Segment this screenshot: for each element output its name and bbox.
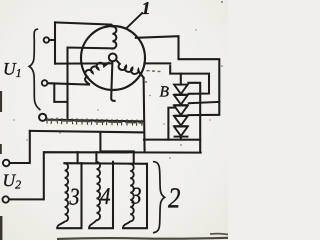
- terminal V1-c: [39, 114, 46, 121]
- terminal V2-b: [2, 196, 8, 202]
- wire coil bottom to left: [68, 48, 113, 120]
- scan noise speckles: [13, 1, 223, 159]
- lower-right rotor winding coil: [117, 61, 144, 78]
- wire rotor slip-ring down right: [144, 78, 145, 152]
- wire brush strip to rotor: [46, 120, 144, 122]
- wire V2-b to rail R3: [9, 152, 201, 199]
- scan artifact: bottom page edge: [57, 238, 228, 239]
- wire drop to choke 4: [95, 152, 97, 162]
- rotor center node circle: [109, 54, 117, 62]
- terminal V1-b: [42, 80, 48, 86]
- choke 3b left coil: [123, 164, 134, 228]
- choke 3 left coil: [57, 163, 68, 228]
- wire top box edge to coil top: [55, 22, 112, 26]
- svg-text:3: 3: [131, 184, 142, 210]
- wire rectifier chain top: [180, 74, 182, 85]
- wire rectifier output down: [188, 83, 200, 153]
- svg-text:3: 3: [69, 185, 80, 211]
- scan noise: dashed line right of machine: [147, 71, 161, 72]
- wire center tap stub down: [111, 61, 114, 101]
- brace V1: [29, 29, 40, 109]
- diode VD4: [174, 116, 188, 126]
- wire diode chain bottom stub: [180, 136, 182, 139]
- wire terminal V1-a to box: [49, 39, 55, 41]
- wire stator tap upper right: [136, 36, 220, 115]
- choke top rail: [64, 162, 147, 165]
- wire center tap horizontal: [55, 62, 112, 64]
- svg-text:1: 1: [142, 0, 151, 18]
- svg-text:2: 2: [168, 183, 181, 215]
- choke 4 body: [89, 162, 113, 228]
- choke 3b body: [123, 164, 147, 228]
- wire branch down from V1-b wire: [54, 84, 67, 102]
- wire rail R1: [30, 131, 144, 133]
- scan artifact: left page edge: [0, 91, 2, 240]
- scan noise: strip blobs: [47, 120, 144, 123]
- top stator winding coil: [112, 26, 116, 48]
- wire terminal V1-b to lower-left winding: [48, 83, 89, 84]
- wire drop to choke 3: [77, 152, 79, 163]
- terminal V1-a: [44, 37, 49, 42]
- wire rectifier tap from circle: [144, 63, 209, 93]
- diode VD3: [174, 106, 188, 116]
- choke 3 body: [57, 163, 81, 228]
- choke 4 left coil: [89, 162, 100, 228]
- wire rectifier left tap down: [168, 108, 175, 140]
- brace 2: [154, 162, 165, 233]
- wire R1 drop to choke rail: [100, 133, 133, 164]
- diode VD2: [174, 95, 188, 105]
- wire rail R2 rectifier bottom: [144, 139, 200, 141]
- label 1 pointer line: [126, 13, 142, 29]
- scan noise: brush strip hatching: [47, 118, 142, 126]
- terminal V2-a: [3, 160, 10, 167]
- wire rectifier right mid tap: [189, 102, 220, 103]
- lower-left rotor winding coil: [85, 63, 109, 84]
- diode VD1: [174, 85, 188, 95]
- svg-text:B: B: [160, 84, 170, 101]
- diode VD5: [174, 127, 188, 137]
- machine 1 stator circle: [81, 26, 145, 90]
- wire V2-a to rail: [10, 131, 30, 163]
- svg-text:4: 4: [100, 184, 111, 210]
- wire box left edge: [54, 22, 56, 63]
